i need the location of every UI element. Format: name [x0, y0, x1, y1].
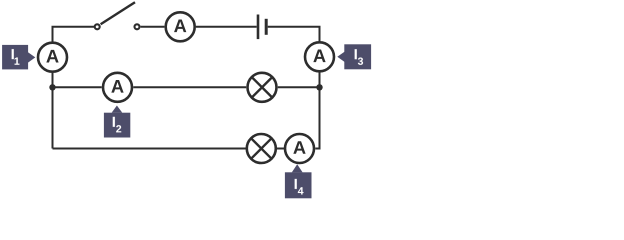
- wire: ammeter A3 down to junction B: [319, 72, 321, 87]
- switch S1 lever (open): [101, 2, 135, 24]
- ammeter A (top): [166, 12, 195, 41]
- wire: battery to top-right corner, down to ammeter A3: [268, 27, 320, 41]
- ammeter A (right, I3): [305, 42, 334, 71]
- label I2: [104, 106, 130, 138]
- ammeter A (middle, I2): [103, 73, 132, 102]
- ammeter A (left, I1): [38, 43, 67, 72]
- battery cell: short plate: [265, 19, 268, 35]
- ammeter A (bottom, I4): [285, 134, 314, 163]
- label I4: [285, 164, 312, 198]
- label I1: [2, 45, 35, 70]
- lamp L2 (bottom): [247, 134, 276, 163]
- wire: bottom left corner to lamp L2: [53, 148, 247, 150]
- switch S1 left contact: [95, 24, 100, 29]
- node A junction dot (left): [49, 84, 55, 90]
- wire: switch right contact to ammeter A(top): [141, 26, 165, 28]
- wire: lamp L1 to junction B: [278, 86, 319, 88]
- wire: ammeter A2 to lamp L1: [133, 86, 246, 88]
- wire top-left: left corner to switch left contact: [53, 27, 95, 42]
- node B junction dot (right): [316, 84, 322, 90]
- lamp L1 (middle): [248, 73, 277, 102]
- switch S1 right contact: [135, 24, 140, 29]
- battery cell: long plate: [257, 15, 260, 40]
- wire: left vertical, ammeter A1 down to junction A and bottom corner: [52, 73, 54, 149]
- wire: lamp L2 to ammeter A4: [277, 148, 285, 150]
- wire: ammeter A(top) to battery: [196, 26, 257, 28]
- wire: junction A to ammeter A2: [54, 86, 102, 88]
- label I3: [337, 44, 371, 69]
- wire: junction B down right side to bottom corner and ammeter A4: [315, 88, 319, 148]
